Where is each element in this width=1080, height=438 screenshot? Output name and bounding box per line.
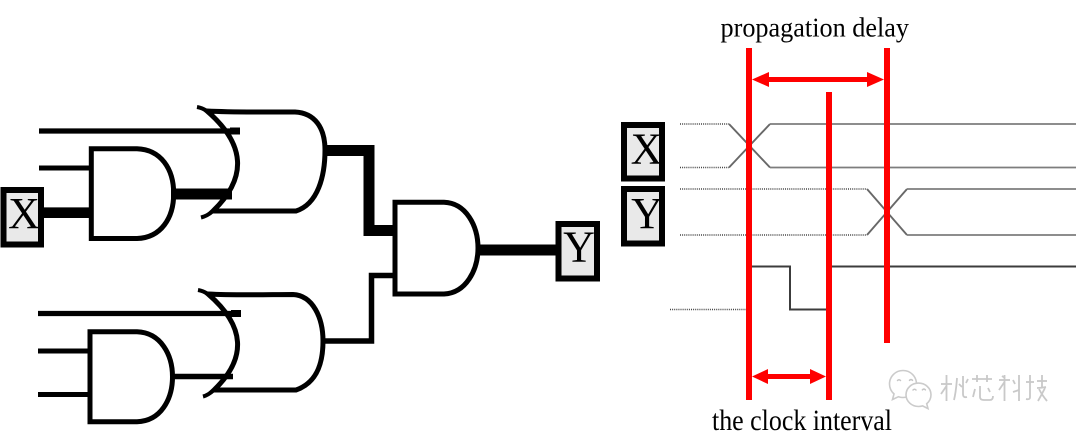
svg-text:the clock interval: the clock interval: [712, 404, 892, 437]
or-gate U4 (bottom OR): [198, 290, 323, 397]
watermark: wechat logo: [890, 371, 932, 409]
node Y (output label box): [559, 223, 598, 279]
waveform clock: dotted lead-in: [670, 309, 747, 311]
wire W4: AND U1 output to OR U2 (thick): [171, 189, 232, 200]
svg-text:Y: Y: [631, 189, 663, 238]
red arrow: clock interval span: [752, 369, 826, 384]
red marker line 1 (clock edge 1): [746, 48, 752, 400]
node Y (waveform label box): [624, 189, 663, 244]
wire W1: top input to OR U2: [39, 128, 240, 133]
and-gate U5 (output AND): [395, 202, 478, 294]
wire W5: OR U2 output to AND U5 (thick, right-down-right): [324, 151, 394, 231]
svg-text:propagation delay: propagation delay: [721, 12, 910, 42]
or-gate U2 (top OR): [197, 107, 325, 218]
red marker line 2 (clock edge 2): [826, 92, 832, 400]
and-gate U3 (bottom-left AND): [90, 332, 173, 422]
waveform Y: new value rails: [907, 189, 1076, 235]
node X (input label box): [4, 189, 42, 245]
wire W7: input to AND U3: [38, 349, 90, 354]
waveform X: new value rails: [770, 124, 1076, 168]
waveform Y: dotted old value: [680, 189, 867, 235]
科: [999, 375, 1019, 401]
wire W11: AND U5 output to Y (thick): [477, 245, 557, 256]
node X (waveform label box): [624, 125, 662, 179]
技: [1026, 375, 1047, 401]
svg-text:X: X: [631, 125, 663, 174]
桃: [941, 375, 968, 401]
svg-text:X: X: [8, 189, 40, 238]
wire W9: AND U3 output to OR U4: [171, 374, 233, 380]
芯: [972, 375, 993, 400]
svg-text:Y: Y: [563, 223, 595, 272]
waveform clock: pulse: [752, 267, 1076, 310]
wire W10: OR U4 output to AND U5 (right-up-right): [322, 276, 395, 342]
wire W6: bottom input to OR U4: [38, 311, 241, 316]
wire W2: input to AND U1: [39, 166, 91, 171]
red marker line 3 (output settles): [884, 48, 890, 343]
waveform X: transition cross: [729, 124, 770, 168]
waveform Y: transition cross: [867, 189, 907, 235]
wire W3: X to AND U1 (thick): [43, 207, 91, 218]
wire W8: input to AND U3: [38, 392, 90, 397]
waveform X: dotted old value: [680, 124, 729, 168]
red arrow: propagation delay span: [752, 72, 884, 87]
watermark: text 桃芯科技: [941, 375, 1047, 401]
and-gate U1 (top-left AND): [91, 149, 173, 239]
